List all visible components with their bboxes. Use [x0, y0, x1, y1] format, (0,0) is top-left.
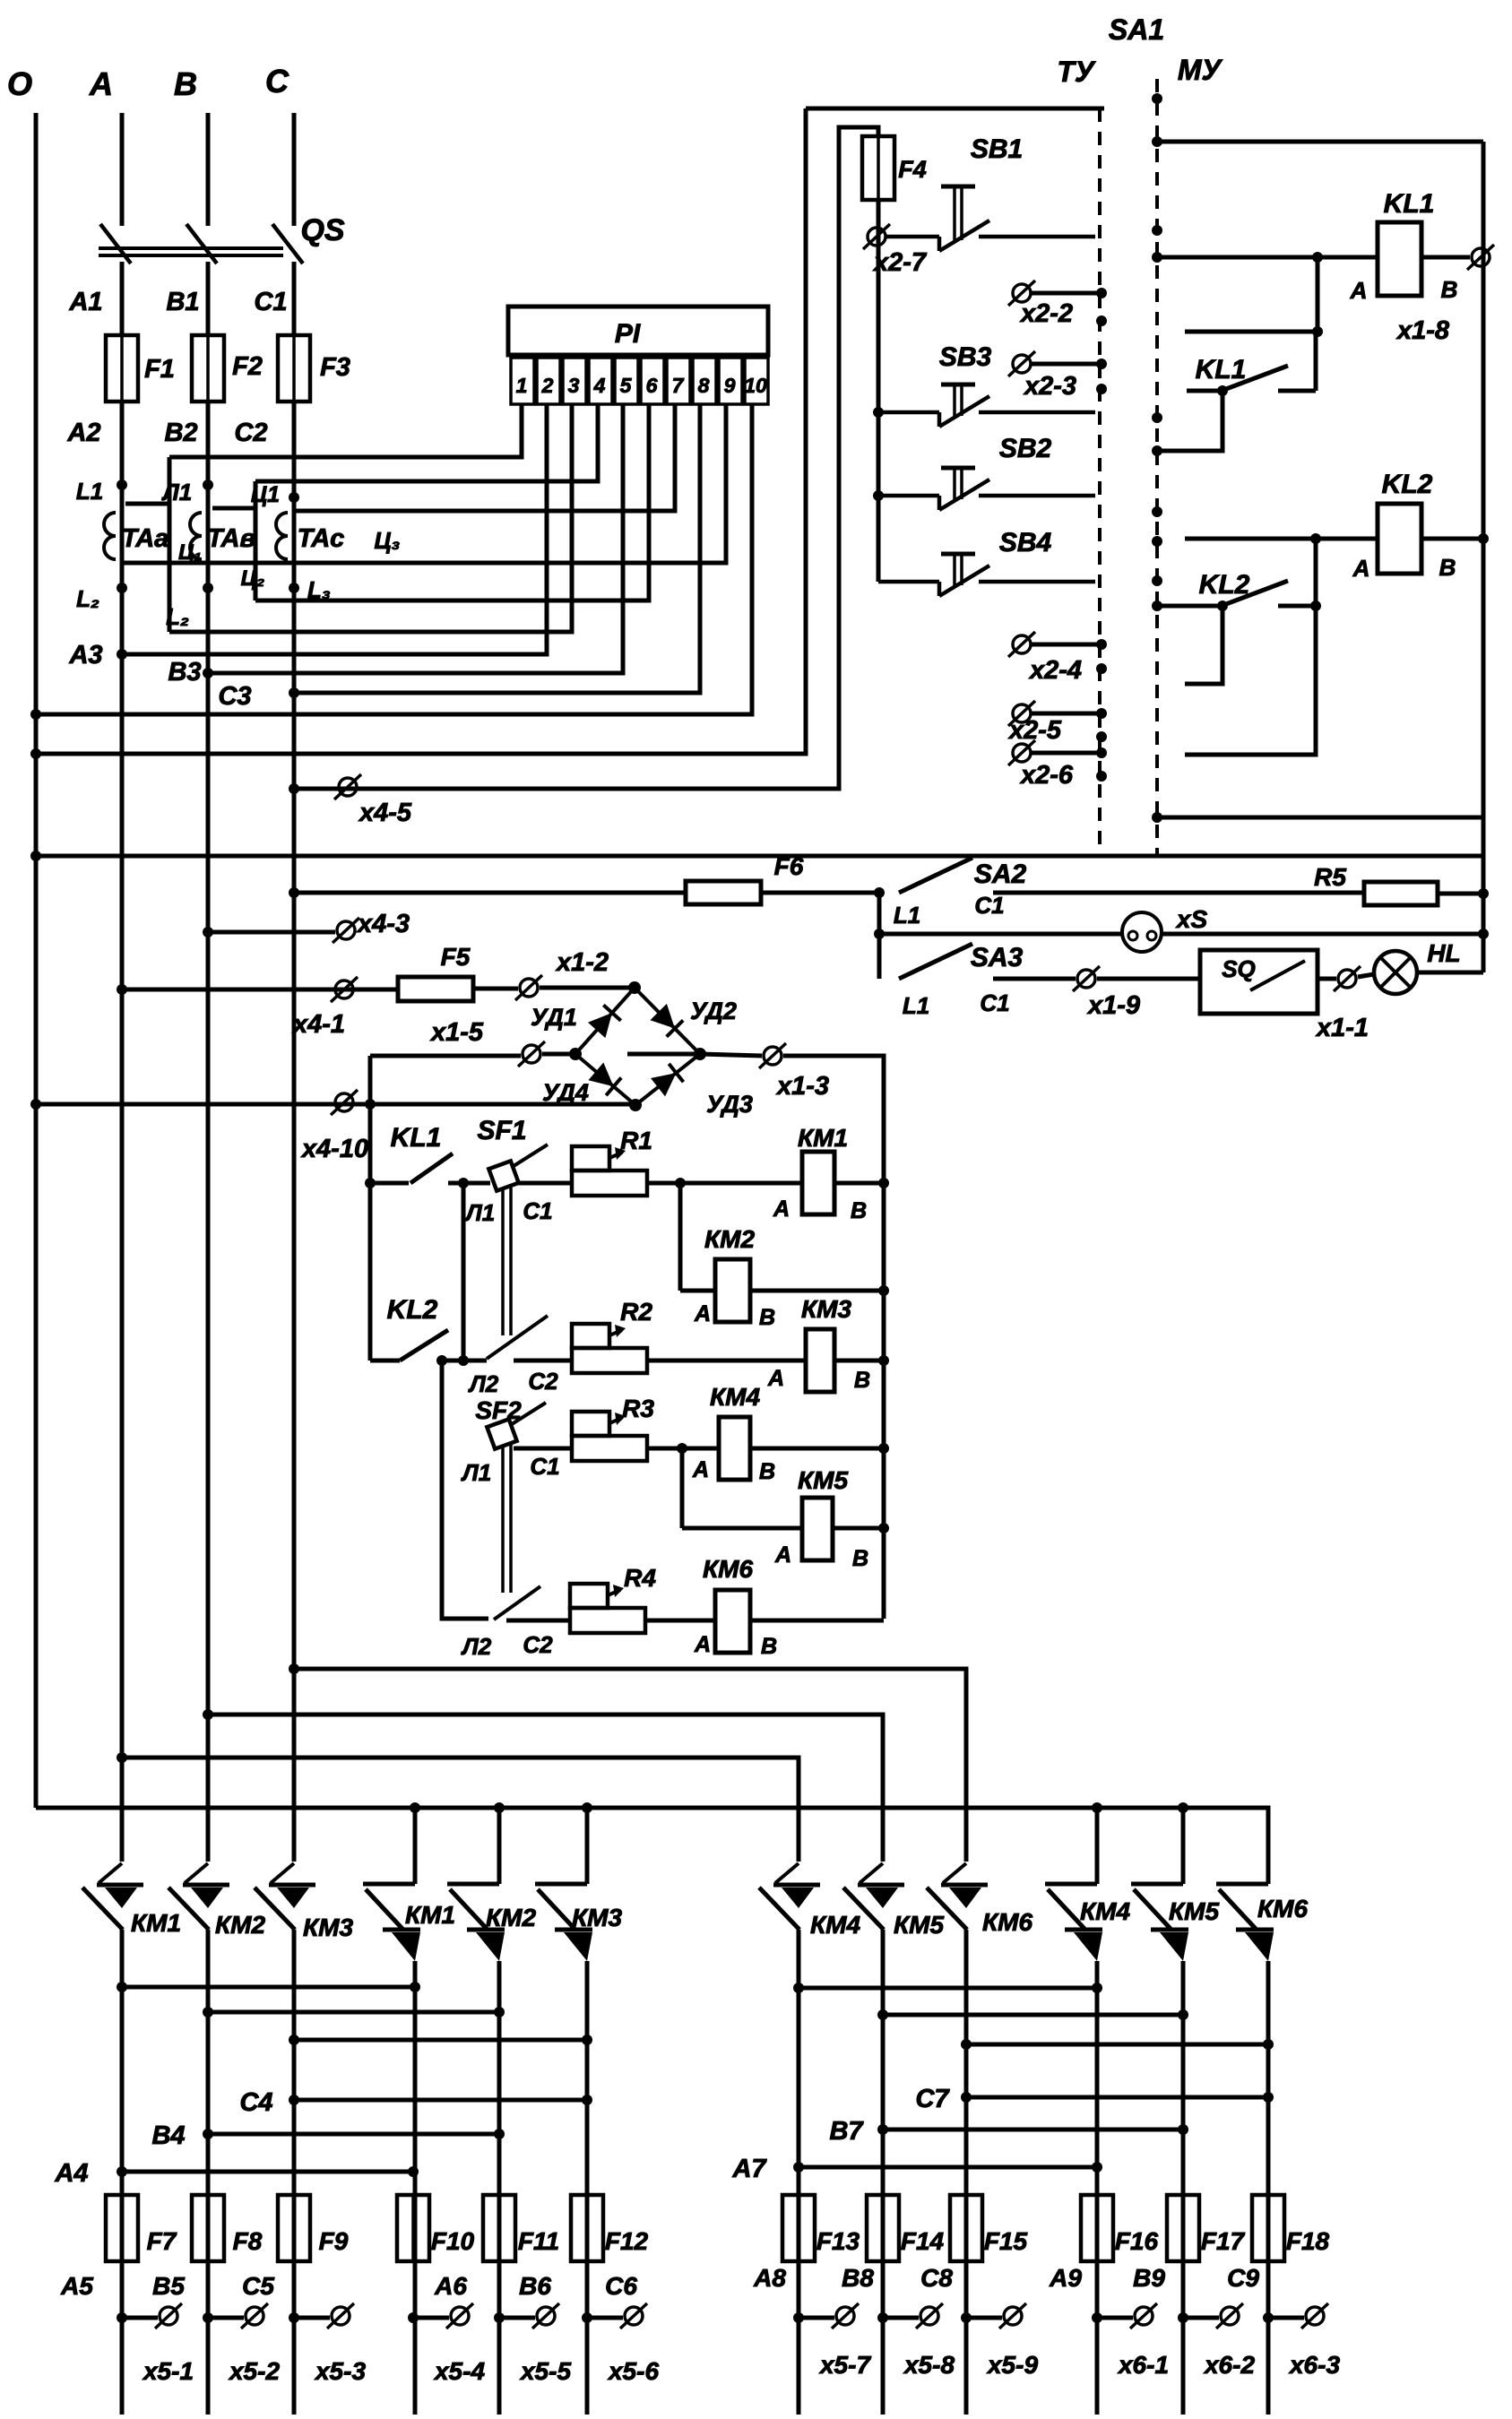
wire KM2 aux leg — [497, 1808, 502, 1884]
wire KL1 coil row — [1157, 255, 1378, 260]
wire KM6 feed lower leg — [964, 1930, 969, 2415]
fuse F18 — [1252, 2195, 1284, 2261]
svg-text:C2: C2 — [528, 1368, 558, 1395]
connector x5-3 stub — [289, 2312, 299, 2323]
wire TAb-U2 to PI-6 — [255, 404, 649, 600]
wire SQ to x1-1 — [1318, 977, 1336, 981]
node x2-6 dots on TY column — [1096, 747, 1107, 758]
wire C7 row — [966, 2095, 1268, 2100]
wire bus O to TY frame — [36, 108, 806, 754]
svg-text:Л1: Л1 — [161, 479, 192, 505]
wire KM5 join row — [883, 2013, 1183, 2017]
wire x1-3 to KM ladder right edge — [783, 1056, 884, 1619]
svg-text:TAc: TAc — [298, 524, 345, 553]
wire TAa-U2 to PI-3 — [169, 404, 572, 632]
node right edge dot KM1 row — [878, 1178, 889, 1188]
svg-text:F11: F11 — [518, 2227, 559, 2255]
transformer TAc secondary coil arcs — [276, 513, 288, 559]
svg-text:x5-4: x5-4 — [433, 2357, 485, 2385]
svg-text:Л2: Л2 — [468, 1370, 499, 1397]
node MY dots KL2 region — [1152, 506, 1162, 517]
svg-text:Л1: Л1 — [461, 1459, 491, 1486]
svg-text:КМ2: КМ2 — [486, 1904, 537, 1931]
wire R1 row — [517, 1181, 572, 1186]
svg-text:F8: F8 — [233, 2227, 263, 2255]
pushbutton SB1 — [886, 186, 1095, 251]
svg-text:F15: F15 — [984, 2227, 1028, 2255]
node A3 dot — [117, 649, 127, 660]
wire C4 row — [294, 2098, 587, 2103]
wire A3 to PI-2 — [122, 404, 547, 654]
wire B incoming top — [206, 113, 211, 226]
svg-text:MУ: MУ — [1178, 54, 1223, 86]
node KL2 coil row junction dot — [1310, 533, 1321, 544]
wire R3 to KM4 — [647, 1447, 719, 1451]
wire R4 row — [506, 1619, 570, 1623]
svg-text:F1: F1 — [144, 355, 175, 384]
wire C incoming top — [292, 113, 297, 226]
svg-text:КМ4: КМ4 — [1080, 1897, 1131, 1925]
svg-text:4: 4 — [593, 374, 606, 397]
svg-text:КМ5: КМ5 — [798, 1466, 849, 1494]
contact KM6 auxiliary main — [1216, 1884, 1274, 1961]
wire right edge vertical — [1482, 142, 1486, 972]
wire R1 to KM1 — [647, 1181, 802, 1186]
svg-text:KL1: KL1 — [1196, 355, 1247, 384]
svg-text:F5: F5 — [441, 943, 471, 971]
svg-text:TAa: TAa — [122, 524, 169, 553]
node MY top dots — [1152, 93, 1162, 104]
node A4 dots — [117, 2166, 127, 2177]
svg-text:КМ2: КМ2 — [704, 1225, 756, 1253]
wire B1 segment — [206, 262, 211, 335]
connector x5-7 pin — [832, 2303, 859, 2328]
svg-text:SF1: SF1 — [477, 1116, 526, 1145]
svg-text:B6: B6 — [519, 2272, 551, 2300]
wire KM4 join row — [799, 1986, 1097, 1991]
wire phase A lower leg — [120, 1930, 125, 2415]
connector x2-6 pin and wire — [1008, 740, 1035, 765]
svg-text:КМ1: КМ1 — [131, 1909, 181, 1937]
svg-text:L₂: L₂ — [76, 585, 99, 612]
svg-text:B: B — [854, 1368, 870, 1393]
svg-text:КМ3: КМ3 — [303, 1914, 354, 1941]
wire KM3 to right edge — [834, 1359, 884, 1363]
svg-text:SA2: SA2 — [974, 860, 1027, 889]
wire KM6 join row — [966, 2043, 1268, 2047]
node MY bottom row dot — [1152, 812, 1162, 823]
svg-text:KL2: KL2 — [1199, 570, 1250, 600]
svg-text:F9: F9 — [319, 2227, 349, 2255]
fuse F6 — [686, 881, 761, 904]
svg-text:A: A — [1352, 555, 1370, 582]
node O bus dots right trio 1 — [410, 1802, 420, 1813]
svg-text:C8: C8 — [920, 2264, 953, 2292]
fuse F14 — [867, 2195, 899, 2261]
connector x5-5 pin — [532, 2303, 559, 2328]
resistor R2 — [572, 1324, 647, 1373]
svg-text:B4: B4 — [151, 2121, 185, 2150]
svg-text:A5: A5 — [60, 2272, 93, 2300]
transformer TAb secondary coil arcs — [190, 513, 202, 559]
wire L1C1 rail lower left — [501, 1445, 505, 1593]
svg-text:F10: F10 — [431, 2227, 475, 2255]
node x2-3 dots on TY column — [1096, 359, 1107, 369]
node SA2 junction dot — [874, 887, 885, 898]
connector x5-1 pin — [155, 2303, 182, 2328]
connector x5-6 pin — [620, 2303, 647, 2328]
wire KM6 to right edge — [750, 1619, 884, 1623]
svg-text:A6: A6 — [434, 2272, 467, 2300]
node A row dot — [117, 1752, 127, 1763]
node KL1 coil row junction dot — [1312, 252, 1323, 263]
relay coil KL1 — [1378, 222, 1421, 296]
wire phase B lower leg — [206, 1930, 211, 2415]
svg-text:9: 9 — [724, 374, 736, 397]
wire x1-1 to HL — [1358, 974, 1374, 977]
fuse F1 — [106, 335, 138, 402]
switch QS blade phase A — [100, 224, 131, 263]
diode VD2 — [635, 988, 700, 1054]
node B row dot — [203, 1709, 213, 1720]
node MY dots KL2 contact rows — [1152, 575, 1162, 586]
wire KM6-out leg — [1266, 1961, 1271, 2415]
fuse F7 — [106, 2195, 138, 2261]
svg-text:A3: A3 — [68, 641, 102, 670]
connector x4-1 pin — [331, 977, 358, 1002]
node A7 dots — [793, 2162, 804, 2173]
wire SA2 to R5 — [993, 891, 1364, 895]
svg-text:x1-3: x1-3 — [775, 1072, 829, 1101]
connector x5-9 pin — [999, 2303, 1026, 2328]
svg-text:B: B — [851, 1198, 867, 1223]
svg-text:C5: C5 — [242, 2272, 274, 2300]
connector x2-5 pin and wire — [1008, 701, 1035, 726]
svg-text:1: 1 — [516, 374, 528, 397]
svg-text:B: B — [1441, 276, 1458, 303]
contact KL1 power — [370, 1153, 490, 1183]
svg-text:A1: A1 — [68, 288, 102, 316]
node O bus dots right trio 2 — [1092, 1802, 1102, 1813]
svg-text:x5-6: x5-6 — [607, 2357, 659, 2385]
connector x6-1 stub — [1092, 2312, 1102, 2323]
svg-text:7: 7 — [672, 374, 685, 397]
svg-text:Ц₂: Ц₂ — [241, 566, 265, 591]
fuse F16 — [1081, 2195, 1113, 2261]
svg-text:A: A — [767, 1366, 784, 1391]
fuse F9 — [278, 2195, 310, 2261]
wire KL1 coil to connector — [1421, 255, 1470, 260]
wire phase A vertical — [120, 402, 125, 1862]
svg-text:R5: R5 — [1314, 863, 1346, 891]
frame TY top edge — [806, 107, 1104, 111]
svg-text:x5-8: x5-8 — [903, 2351, 955, 2379]
wire main control bus — [36, 854, 1483, 859]
wire KM1 join row — [122, 1985, 415, 1990]
svg-text:x5-5: x5-5 — [519, 2357, 571, 2385]
fuse F10 — [397, 2195, 429, 2261]
wire A1 segment — [120, 262, 125, 335]
svg-text:КМ4: КМ4 — [810, 1911, 861, 1939]
svg-text:C1: C1 — [530, 1453, 559, 1480]
wire R4 to KM6 — [645, 1619, 715, 1623]
node KL1 hook dot — [1312, 326, 1323, 337]
contactor coil KM4 — [719, 1417, 750, 1480]
svg-text:A: A — [773, 1197, 790, 1222]
svg-text:УД2: УД2 — [690, 998, 737, 1024]
wire B4 row — [208, 2132, 499, 2137]
node KM4 join dots — [793, 1983, 804, 1993]
contactor coil KM1 — [802, 1152, 834, 1214]
breaker SF2 square — [487, 1419, 516, 1448]
wire x4-3 stub from B — [208, 930, 335, 935]
diode VD1 — [575, 988, 635, 1054]
wire O bus to PI-10 — [36, 404, 752, 714]
connector x6-2 pin — [1216, 2303, 1243, 2328]
node KM3 join dots — [289, 2035, 299, 2045]
wire KL2 lower hook — [1185, 606, 1316, 755]
connector x5-9 stub — [961, 2312, 972, 2323]
limit switch SQ box — [1200, 950, 1318, 1014]
contact KL2 auxiliary — [1157, 581, 1321, 611]
svg-text:x5-2: x5-2 — [228, 2357, 280, 2385]
svg-text:8: 8 — [698, 374, 710, 397]
svg-text:KL1: KL1 — [1384, 189, 1435, 219]
wire KL2 coil to right edge — [1421, 537, 1483, 541]
wire KM1 to right edge — [834, 1181, 884, 1186]
svg-text:F2: F2 — [232, 352, 263, 381]
node C4 dots — [289, 2095, 299, 2105]
svg-text:C6: C6 — [605, 2272, 637, 2300]
fuse F2 — [192, 335, 224, 402]
fuse F17 — [1167, 2195, 1199, 2261]
node xS right dot — [1478, 929, 1489, 939]
svg-text:B3: B3 — [168, 658, 201, 687]
svg-text:QS: QS — [300, 213, 344, 247]
svg-text:x1-5: x1-5 — [429, 1018, 484, 1047]
resistor R5 — [1364, 882, 1438, 905]
wire L1C1 rail lower right — [509, 1445, 513, 1593]
wire A row to PI-9 — [122, 404, 726, 563]
svg-text:C: C — [265, 63, 289, 99]
svg-text:KL2: KL2 — [387, 1295, 438, 1325]
wire KL1 contact return hook — [1157, 391, 1223, 451]
connector x6-2 stub — [1178, 2312, 1188, 2323]
node control bus dot at O — [30, 851, 41, 861]
svg-text:x5-9: x5-9 — [986, 2351, 1038, 2379]
node C3 dot — [289, 687, 299, 698]
node R5 right dot — [1478, 888, 1489, 899]
svg-text:A9: A9 — [1049, 2264, 1082, 2292]
terminal strip PI cells — [511, 358, 534, 404]
wire KL2 contact to coil-row vertical — [1314, 539, 1318, 606]
svg-text:5: 5 — [620, 374, 633, 397]
contact KM3 main — [255, 1863, 315, 1930]
pushbutton SB4 — [878, 554, 1095, 596]
svg-text:x2-4: x2-4 — [1028, 656, 1082, 685]
wire phase C lower leg — [292, 1930, 297, 2415]
contact KM5 auxiliary main — [1131, 1884, 1188, 1961]
svg-text:10: 10 — [744, 374, 767, 397]
wire MY to right edge top — [1157, 140, 1483, 144]
svg-text:x5-7: x5-7 — [818, 2351, 871, 2379]
wire B7 row — [883, 2128, 1183, 2132]
wire phase C vertical — [292, 402, 297, 1862]
limit switch SQ blade — [1250, 961, 1305, 990]
wire bridge mid stub — [627, 1052, 700, 1057]
transformer TAb terminal box — [212, 506, 255, 511]
wire KM2-out leg — [497, 1961, 502, 2415]
transformer TAa L2 dot — [117, 583, 127, 593]
svg-text:A: A — [1350, 277, 1368, 304]
contact KM4 main — [759, 1863, 820, 1930]
node C7 dots — [961, 2092, 972, 2103]
svg-text:КМ1: КМ1 — [798, 1124, 848, 1152]
svg-text:A: A — [694, 1632, 711, 1657]
fuse F12 — [571, 2195, 603, 2261]
connector x1-3 pin — [759, 1043, 786, 1068]
wire A row to KM4 leg — [122, 1758, 799, 1862]
connector x5-7 stub — [793, 2312, 804, 2323]
svg-text:x6-1: x6-1 — [1117, 2351, 1169, 2379]
svg-text:B5: B5 — [152, 2272, 185, 2300]
wire B row to KM5 leg — [208, 1715, 883, 1862]
connector x1-8 pin — [1467, 245, 1494, 270]
node KM6 join dots — [961, 2039, 972, 2050]
wire KL1-KL2 link vertical — [462, 1183, 466, 1361]
svg-text:A7: A7 — [731, 2155, 767, 2183]
wire SA2-SA3 riser — [877, 893, 882, 979]
connector x1-9 pin — [1073, 966, 1100, 991]
connector x2-7 pin — [863, 224, 890, 249]
node F6 row dot at C — [289, 887, 299, 898]
svg-text:x5-3: x5-3 — [314, 2357, 366, 2385]
transformer TAa primary tap L1 dot — [117, 479, 127, 490]
svg-text:x6-2: x6-2 — [1203, 2351, 1255, 2379]
connector x5-8 pin — [916, 2303, 943, 2328]
svg-text:x1-8: x1-8 — [1395, 316, 1450, 345]
svg-text:B: B — [852, 1546, 868, 1571]
svg-text:ТУ: ТУ — [1057, 56, 1096, 88]
svg-text:РI: РI — [615, 319, 641, 349]
wire KM5 to right edge — [833, 1526, 884, 1531]
svg-text:C3: C3 — [218, 682, 251, 711]
contactor coil KM5 — [802, 1498, 833, 1560]
wire KM5 aux leg — [1181, 1808, 1186, 1884]
connector x5-8 stub — [877, 2312, 888, 2323]
node B4 dots — [203, 2129, 213, 2139]
connector x5-6 stub — [582, 2312, 592, 2323]
contact KM3 auxiliary main — [535, 1884, 592, 1961]
wire xS row left — [879, 932, 1122, 937]
svg-text:A: A — [774, 1542, 791, 1568]
node KM5 join dots — [877, 2009, 888, 2020]
contact KM4 auxiliary main — [1045, 1884, 1102, 1961]
transformer TAa secondary coil arcs — [104, 513, 116, 559]
wire KM ladder left edge — [368, 1056, 373, 1361]
node KM5 branch dot — [677, 1443, 687, 1454]
wire L1C1 rail upper right — [509, 1188, 513, 1335]
svg-text:x4-3: x4-3 — [356, 910, 410, 938]
svg-text:B: B — [759, 1459, 775, 1484]
wire KM1-out leg — [413, 1961, 418, 2415]
connector x1-2 pin — [515, 975, 542, 1000]
wire F5 to x1-2 — [473, 987, 518, 991]
node KL2 right edge dot — [1478, 533, 1489, 544]
breaker SF1 lower blade — [487, 1316, 548, 1359]
breaker SF1 blade — [514, 1145, 548, 1166]
svg-text:F16: F16 — [1115, 2227, 1159, 2255]
svg-text:xS: xS — [1175, 905, 1208, 933]
switch SA3 blade — [899, 944, 972, 979]
svg-text:L₂: L₂ — [166, 603, 189, 630]
node right edge dot KM2 row — [878, 1285, 889, 1296]
fuse F13 — [782, 2195, 815, 2261]
wire A7 row — [799, 2165, 1097, 2170]
svg-text:B: B — [1439, 554, 1456, 581]
node x4-1 dot at A — [117, 984, 127, 995]
svg-text:O: O — [7, 65, 32, 102]
svg-text:C1: C1 — [523, 1197, 552, 1224]
svg-text:УД1: УД1 — [531, 1004, 577, 1031]
wire R2 row — [514, 1359, 572, 1363]
svg-text:КМ6: КМ6 — [1257, 1895, 1309, 1922]
connector x5-2 pin — [241, 2303, 268, 2328]
svg-text:B: B — [174, 65, 197, 102]
wire KM4-out leg — [1095, 1961, 1100, 2415]
wire KM2 join row — [208, 2010, 499, 2015]
wire KM3 join row — [294, 2038, 587, 2043]
connector x2-3 pin and wire — [1008, 351, 1035, 376]
svg-text:A8: A8 — [753, 2264, 786, 2292]
resistor R1 — [572, 1146, 647, 1196]
fuse F8 — [192, 2195, 224, 2261]
wire x4-1 row from A — [122, 988, 398, 992]
node x4-5 dot at C — [289, 783, 299, 794]
fuse F5 — [398, 977, 473, 1001]
connector x1-1 pin — [1334, 966, 1361, 991]
node x2-2 dots on TY column — [1096, 288, 1107, 298]
svg-text:F6: F6 — [774, 852, 804, 880]
svg-text:B: B — [759, 1305, 775, 1330]
connector x5-5 stub — [494, 2312, 505, 2323]
svg-text:x6-3: x6-3 — [1288, 2351, 1340, 2379]
svg-text:R3: R3 — [622, 1395, 654, 1422]
svg-text:L1: L1 — [903, 992, 929, 1019]
transformer TAa terminal box — [125, 502, 169, 506]
disconnect switch QS linkage bar — [99, 246, 283, 250]
svg-text:C1: C1 — [254, 288, 287, 316]
switch QS blade phase C — [272, 224, 303, 263]
wire KM2 row — [680, 1289, 715, 1293]
transformer TAc primary tap dot — [289, 492, 299, 503]
breaker SF2 lower blade — [494, 1586, 540, 1620]
breaker SF1 square — [488, 1161, 518, 1190]
svg-text:x2-2: x2-2 — [1019, 299, 1073, 328]
svg-text:SA3: SA3 — [971, 943, 1024, 972]
node bus 841 dot at O — [30, 748, 41, 759]
svg-text:x2-6: x2-6 — [1019, 761, 1074, 790]
node x2-4 dots on TY column — [1096, 639, 1107, 650]
wire KM5 branch vertical — [680, 1448, 685, 1528]
svg-text:x1-1: x1-1 — [1315, 1014, 1369, 1042]
wire TAc-U1 to PI-7 — [294, 404, 675, 511]
svg-text:B1: B1 — [166, 288, 199, 316]
svg-text:Л2: Л2 — [461, 1633, 492, 1660]
node bridge left dot — [569, 1048, 582, 1060]
resistor R4 — [570, 1584, 645, 1633]
connector x6-3 pin — [1301, 2303, 1328, 2328]
